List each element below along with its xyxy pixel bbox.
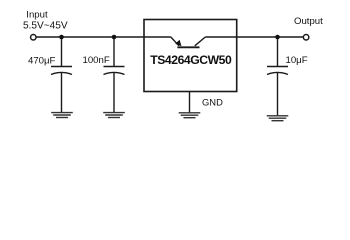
svg-text:TS4264GCW50: TS4264GCW50 [150, 53, 232, 67]
svg-text:Input: Input [26, 9, 48, 20]
svg-text:GND: GND [202, 97, 223, 108]
svg-text:10μF: 10μF [286, 55, 308, 66]
svg-text:470μF: 470μF [28, 56, 56, 67]
svg-text:5.5V~45V: 5.5V~45V [23, 21, 68, 32]
svg-text:100nF: 100nF [83, 55, 110, 66]
svg-text:Output: Output [294, 16, 323, 27]
